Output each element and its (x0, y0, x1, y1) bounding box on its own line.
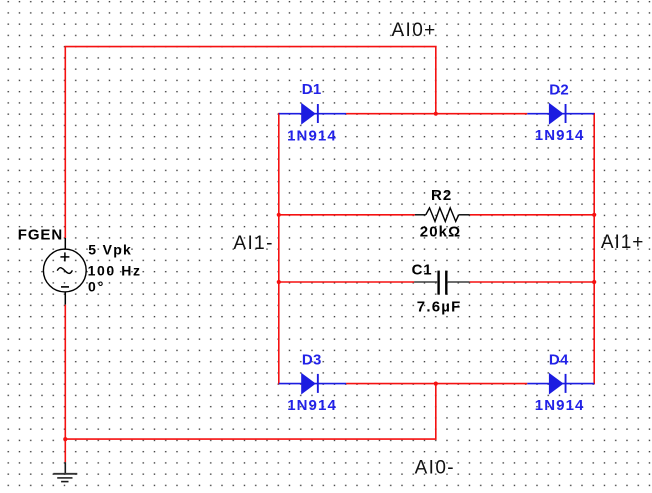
label C1 (412, 262, 433, 279)
junction: AI1+ / C1 row (592, 280, 596, 284)
wire: net AI1- vertical from D1 anode to D3 anode (red) (278, 113, 280, 385)
wire: net AI0+ from FGEN+ up and over to D1/D2 anode node (red) (65, 47, 436, 238)
wire: FGEN + terminal lead stub (black) (64, 238, 66, 250)
label D2 (549, 82, 569, 99)
diode D2 (1N914) (527, 103, 594, 125)
capacitor C1 (414, 271, 470, 295)
label 1N914 (D4) (535, 397, 585, 414)
label D3 (302, 352, 322, 369)
ground lead stub (black) (64, 462, 66, 473)
wire: FGEN - terminal lead stub (black) (64, 292, 66, 305)
wire: D3 cathode to D4 anode, net AI0- (red) (346, 383, 527, 385)
svg-text:1N914: 1N914 (535, 397, 585, 414)
ground symbol (53, 474, 77, 482)
label D1 (302, 81, 322, 98)
svg-text:100 Hz: 100 Hz (88, 263, 142, 279)
svg-text:AI0-: AI0- (415, 458, 455, 479)
junction: AI0+ node on D1-D2 wire (434, 112, 438, 116)
diode D4 (1N914) (527, 373, 594, 395)
diode D3 (1N914) (279, 373, 346, 395)
wire: D1 cathode to D2 anode, net AI0+ (red) (346, 113, 527, 115)
svg-text:D3: D3 (302, 352, 322, 369)
label FGEN (18, 226, 63, 243)
junction: AI1- / C1 row (277, 280, 281, 284)
label 1N914 (D2) (535, 127, 585, 144)
label 0 deg (88, 279, 105, 295)
label 100 Hz (88, 263, 142, 279)
label 7.6uF (417, 299, 462, 316)
wire: net AI0- horizontal from D3/D4 node down and left (red) (65, 384, 436, 440)
net label AI0- (415, 458, 455, 479)
svg-text:FGEN: FGEN (18, 226, 63, 243)
svg-text:7.6µF: 7.6µF (417, 299, 462, 316)
junction: AI0- node on D3-D4 wire (434, 382, 438, 386)
svg-text:AI0+: AI0+ (392, 20, 437, 41)
wire: AI1- to C1 left lead (red) (279, 281, 414, 283)
wire: AI1- to R2 left lead (red) (279, 214, 415, 216)
junction: FGEN-/AI0-/ground node (63, 437, 67, 441)
junction: AI1- / R2 row (277, 213, 281, 217)
label 20kOhm (420, 224, 461, 241)
svg-text:AI1-: AI1- (233, 233, 273, 254)
label 1N914 (D3) (287, 397, 337, 414)
net label AI1- (233, 233, 273, 254)
svg-text:R2: R2 (431, 187, 452, 204)
svg-text:AI1+: AI1+ (601, 232, 644, 253)
wire: FGEN- down to AI0- node (red) (64, 305, 66, 463)
resistor R2 (415, 208, 470, 222)
svg-text:D4: D4 (549, 352, 569, 369)
svg-text:1N914: 1N914 (287, 127, 337, 144)
wire: net AI1+ vertical from D2 cathode to D4 cathode (red) (593, 113, 595, 385)
label 5 Vpk (88, 241, 132, 257)
svg-text:D1: D1 (302, 81, 322, 98)
wire: R2 right lead to AI1+ (red) (470, 214, 595, 216)
label R2 (431, 187, 452, 204)
voltage source FGEN (function generator, sine) (43, 249, 86, 292)
net label AI1+ (601, 232, 644, 253)
svg-text:D2: D2 (549, 82, 569, 99)
net label AI0+ (392, 20, 437, 41)
svg-text:5 Vpk: 5 Vpk (88, 241, 132, 257)
junction: AI1+ / R2 row (592, 213, 596, 217)
svg-text:1N914: 1N914 (287, 397, 337, 414)
label 1N914 (D1) (287, 127, 337, 144)
svg-text:C1: C1 (412, 262, 433, 279)
svg-text:1N914: 1N914 (535, 127, 585, 144)
svg-text:20kΩ: 20kΩ (420, 224, 461, 241)
diode D1 (1N914) (279, 103, 346, 125)
label D4 (549, 352, 569, 369)
svg-text:0°: 0° (88, 279, 105, 295)
wire: C1 right lead to AI1+ (red) (470, 281, 595, 283)
